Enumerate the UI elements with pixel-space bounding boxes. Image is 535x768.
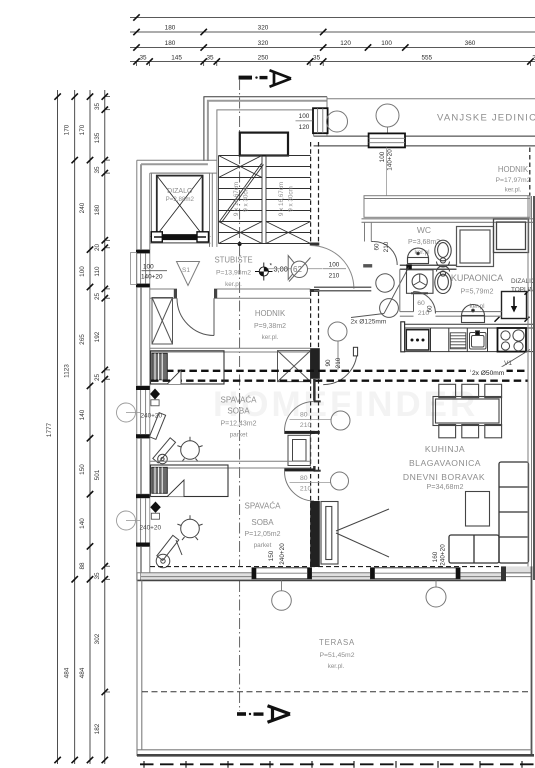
svg-text:88: 88 [79,562,86,570]
svg-text:180: 180 [165,40,176,47]
extension stubs below row4 [137,62,531,67]
svg-text:320: 320 [258,25,269,32]
wall stair/hodnik y289-298 [150,289,311,298]
svg-text:90: 90 [325,359,332,367]
WC west wall [365,222,372,241]
svg-text:35: 35 [139,55,147,62]
elevator shaft [152,173,210,243]
svg-text:P=5,79m2: P=5,79m2 [461,287,494,296]
spine black segment below door2 [310,501,320,567]
kitchen sink [470,331,487,349]
TV cabinet [321,502,338,565]
svg-text:210: 210 [300,486,312,493]
hall lamp circle [328,322,347,341]
leader + label 2x125mm [384,268,409,314]
chairs top [439,384,502,438]
top-right appliance box [494,219,529,253]
svg-text:2x Ø50mm: 2x Ø50mm [472,370,505,377]
svg-text:35: 35 [313,55,321,62]
svg-text:P=13,98m2: P=13,98m2 [216,270,251,277]
svg-text:S1: S1 [182,267,190,274]
kupaonica door 60/210 [414,292,436,314]
spine black segment at 90-door [310,348,320,379]
svg-text:210: 210 [329,273,340,280]
corner step black [501,566,506,581]
svg-text:P=34,68m2: P=34,68m2 [427,482,464,491]
svg-text:P=17,97m2: P=17,97m2 [496,177,531,184]
svg-text:210: 210 [383,241,390,252]
coffee table [466,492,490,527]
canopy line [327,98,535,100]
svg-text:9 x 16,67cm: 9 x 16,67cm [278,182,285,216]
svg-text:192: 192 [94,331,101,342]
svg-text:135: 135 [94,132,101,143]
terrace dashed mid line [142,691,531,693]
svg-text:9 x 30cm: 9 x 30cm [243,186,250,212]
svg-text:SOBA: SOBA [227,407,250,416]
stair landing opening (black box) [240,133,288,156]
dresser by door1 [288,435,310,465]
entrance door arc [311,246,354,289]
dining table [433,397,502,426]
sofa L [449,462,529,563]
svg-text:80: 80 [300,475,308,482]
chain2 (x74.7): 170,1123,484 [72,93,78,763]
desk 1 [149,413,175,464]
svg-text:170: 170 [79,124,86,135]
svg-text:35: 35 [94,103,101,111]
section marker A top [239,70,291,86]
svg-text:20: 20 [94,244,101,252]
oven with knobs [406,330,429,350]
stair stringer diagonal [220,164,264,223]
hall south wall (below entry) [314,287,371,290]
bed 2 [151,465,229,497]
svg-text:320: 320 [258,40,269,47]
hodnik east dashed opening [529,148,531,197]
svg-text:1777: 1777 [46,422,53,437]
svg-text:WC: WC [417,225,431,235]
svg-text:140+20: 140+20 [387,149,394,171]
svg-text:145: 145 [171,55,182,62]
shower [457,227,494,267]
svg-text:100: 100 [143,264,154,271]
svg-text:STUBIŠTE: STUBIŠTE [214,256,252,265]
window W2 240+20 [136,386,150,438]
diamond symbol 2 [150,502,161,513]
S1 triangle [177,262,200,286]
svg-text:ker.pl.: ker.pl. [328,663,345,670]
closet row [364,196,530,218]
left dim ticks chain1 (x57.6): 1777 [54,93,60,763]
svg-text:100: 100 [379,151,386,162]
svg-text:P=2,88m2: P=2,88m2 [166,196,195,203]
svg-text:SOBA: SOBA [251,518,274,527]
svg-text:parket: parket [230,432,248,439]
stair X braces [219,156,311,244]
wall left exterior [136,160,138,580]
svg-text:P=12,43m2: P=12,43m2 [221,421,257,428]
elevator X [157,176,203,235]
svg-text:SPAVAĆA: SPAVAĆA [244,502,281,511]
svg-text:DIZALO: DIZALO [167,188,193,195]
svg-text:SPAVAĆA: SPAVAĆA [220,396,257,405]
washbasin WC [408,248,429,263]
terrace lamp circles [272,591,292,611]
WC/KUPAONICA divider wall [400,265,457,269]
terrace right wall [531,566,533,756]
svg-text:210: 210 [300,422,312,429]
svg-text:100: 100 [299,113,310,120]
svg-text:25: 25 [94,374,101,382]
toilet KUPAONICA [435,266,451,294]
svg-text:180: 180 [165,25,176,32]
svg-text:HODNIK: HODNIK [498,165,529,174]
svg-text:ker.pl.: ker.pl. [225,281,242,288]
left dim labels (rotated) [46,103,101,735]
svg-text:240+20: 240+20 [140,525,162,532]
svg-text:555: 555 [421,55,432,62]
entrance balloon 62 [288,256,310,282]
wall stair-core top [204,97,327,161]
svg-text:60: 60 [374,243,381,251]
wall fill segments [141,566,532,580]
svg-text:P=3,68m2: P=3,68m2 [408,239,440,246]
window W4 [252,568,312,579]
svg-text:150: 150 [268,550,275,561]
niche south wall band [314,136,535,146]
desk 2 [156,535,182,568]
svg-text:484: 484 [64,667,71,678]
wall bedroom1/bedroom2 [150,461,311,468]
dishwasher hatch [450,333,466,349]
svg-text:parket: parket [254,542,272,549]
svg-text:60: 60 [427,305,434,313]
svg-text:120: 120 [299,124,310,131]
chain4 (x104.8): 35,135,35,180,20,110,25,192,25,501,35,302,182 [102,93,108,763]
X wardrobe [278,351,311,382]
bedroom2 door 80/210 [313,466,316,472]
label 100/120 [299,113,310,131]
svg-text:140: 140 [79,409,86,420]
WC door 60/210 [371,241,397,265]
svg-text:VANJSKE JEDINICE: VANJSKE JEDINICE [437,113,535,124]
vertical section centerline [239,79,241,711]
svg-text:KUHINJA: KUHINJA [425,444,465,454]
2x125 ducts circles [376,274,394,292]
svg-text:100: 100 [79,266,86,277]
svg-text:DNEVNI BORAVAK: DNEVNI BORAVAK [403,472,485,482]
svg-text:160: 160 [432,551,439,562]
svg-text:140+20: 140+20 [141,274,163,281]
elevator sliding door [150,232,211,243]
dashed top line of bottom wall [150,566,501,568]
X shaft left [152,298,173,345]
svg-text:150: 150 [79,464,86,475]
top dim ticks [133,14,533,64]
diamond symbol 1 [150,389,160,400]
svg-text:240: 240 [79,202,86,213]
bottom wall lines [137,573,532,577]
svg-text:BLAGAVAONICA: BLAGAVAONICA [409,458,481,468]
svg-text:501: 501 [94,469,101,480]
svg-text:265: 265 [79,334,86,345]
svg-text:25: 25 [94,293,101,301]
window 100/120 in stair right wall [313,108,328,133]
wall above elevator [137,159,217,161]
svg-text:100: 100 [329,262,340,269]
stove 4 burners [498,328,527,352]
bed 1 [151,351,225,384]
svg-text:60: 60 [417,300,425,307]
svg-text:110: 110 [94,266,101,277]
heat pump [502,292,527,319]
svg-text:100: 100 [381,40,392,47]
svg-text:P=9,38m2: P=9,38m2 [254,323,286,330]
washing machine [407,270,434,294]
entrance door jambs [310,243,320,246]
svg-text:HODNIK: HODNIK [255,309,286,318]
svg-text:240+20: 240+20 [279,543,286,565]
svg-text:2x Ø125mm: 2x Ø125mm [351,319,387,326]
stair treads [219,156,311,244]
railing dashes bottom [140,763,535,765]
svg-text:KUPAONICA: KUPAONICA [451,273,503,283]
chair 2 [177,515,202,540]
svg-text:182: 182 [94,723,101,734]
svg-text:35: 35 [94,572,101,580]
toilet WC [435,240,451,267]
left dimension lines [58,90,105,764]
svg-text:62: 62 [293,265,302,274]
stair flight labels [233,182,295,216]
stair-core right wall [314,97,327,136]
entrance door label 100/210 [329,262,340,280]
level marker +3,00 [255,263,288,281]
svg-text:250: 250 [258,55,269,62]
TV cone [336,509,389,557]
wall below closet (hodnik/WC) [362,219,535,223]
AC unit circles [327,111,348,132]
extension stubs right of chain4 [105,97,110,692]
svg-text:302: 302 [94,633,101,644]
top dim labels [139,25,535,62]
duct dot on divider [406,264,412,270]
svg-text:484: 484 [79,667,86,678]
svg-text:140: 140 [79,518,86,529]
svg-text:ker.pl.: ker.pl. [505,187,522,194]
window Wtop 100/140+20 [369,133,405,147]
svg-text:1123: 1123 [64,364,71,378]
svg-text:ker.pl.: ker.pl. [262,334,279,341]
svg-text:35: 35 [206,55,214,62]
svg-text:360: 360 [465,40,476,47]
terrace door W5 [371,568,461,579]
bedroom1 door 80/210 [313,379,316,401]
svg-text:170: 170 [64,124,71,135]
door 90/210 kitchen entry [323,351,357,385]
door stair-hodnik [177,298,214,335]
svg-text:80: 80 [300,412,308,419]
svg-text:240+20: 240+20 [440,544,447,566]
terrace left wall [137,573,142,756]
svg-text:35: 35 [94,166,101,174]
svg-text:9 x 16,67cm: 9 x 16,67cm [233,182,240,216]
chain3 (x90): 170,240,100,265,140,150,140,88,484 [87,93,93,763]
terrace bottom wall [137,750,534,756]
window W3 240+20 [136,494,150,546]
window W1 100/140+20 [131,250,150,287]
wall hodnik/bedroom1 [150,348,311,352]
kupaonica washbasin [462,305,485,323]
svg-text:P=51,45m2: P=51,45m2 [320,652,355,659]
svg-text:9 x 30cm: 9 x 30cm [288,186,295,212]
svg-text:180: 180 [94,204,101,215]
svg-text:TERASA: TERASA [319,638,355,647]
chair 1 [177,437,202,462]
svg-text:P=12,05m2: P=12,05m2 [245,531,281,538]
section marker A bottom [237,706,290,722]
svg-text:210: 210 [335,357,342,368]
svg-text:120: 120 [340,40,351,47]
kupaonica south wall [400,269,502,316]
top dimension lines [130,18,535,62]
